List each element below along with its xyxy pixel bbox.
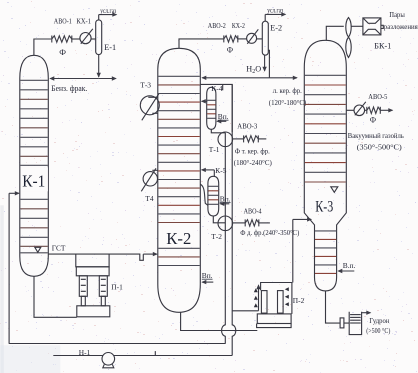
label K-2 [162,226,193,247]
furnace P-2 [257,283,292,328]
svg-text:ГСТ: ГСТ [52,243,66,252]
wire KX-1 to E-1 [91,38,96,40]
svg-text:Т-1: Т-1 [209,145,220,154]
K-4 bottoms to T-1 [211,129,225,133]
trunk wire from T-1/T-2 down to bottom long wire [222,133,226,344]
heat exchanger T-1 [218,132,233,147]
water draw from E-2 [264,55,266,71]
svg-text:Вакуумный газойль: Вакуумный газойль [348,131,405,140]
svg-text:разложения: разложения [384,22,418,31]
stripper K-4 [207,87,216,129]
svg-text:Ф: Ф [59,47,66,57]
wire K-3 top to ejector [326,26,344,40]
svg-text:Т-2: Т-2 [211,232,222,241]
P-2 feed wire and riser [232,286,258,311]
heat exchanger T-3 [140,96,159,115]
pump N-1 [102,353,115,366]
svg-text:Пары: Пары [389,10,405,19]
svg-text:(120°-180°С): (120°-180°С) [269,98,307,107]
heat exchanger T-4 [143,172,157,186]
trays of K-2 [158,76,200,265]
svg-text:Ф: Ф [227,45,233,54]
svg-text:К-2: К-2 [166,229,191,248]
wire ABO-2 to KX-2 [238,38,247,40]
air cooler ABO-4 [233,222,246,224]
level mark in K-1 bottom [35,247,41,252]
wire ejector to BK-1 [351,25,363,27]
svg-text:Ф т. кер. фр.: Ф т. кер. фр. [235,146,270,155]
P-2 flow arrows [254,287,289,307]
draw wire K-2 to stripper loop [200,84,232,132]
kerosene overhead product wire [268,50,269,78]
wire K-1 top to ABO-1 [34,39,51,55]
svg-text:БК-1: БК-1 [374,41,391,50]
svg-text:Е-2: Е-2 [270,23,282,32]
svg-text:АВО-3: АВО-3 [237,121,257,130]
column K-1 [20,55,49,276]
svg-text:Вп.: Вп. [202,271,213,280]
gas line from E-2 [264,14,266,21]
P-1 tube marks [81,279,106,291]
svg-text:усл.газ: усл.газ [100,8,116,15]
trunk wire crude from pump up to K-2 [232,84,236,355]
reflux drum E-2 [262,21,268,55]
steam ejector unit [346,18,351,38]
benzine product line [50,78,98,80]
long bottom wire [9,343,225,345]
svg-text:усл.газ: усл.газ [267,7,283,14]
submerged coil cooler (tar) [349,312,361,335]
svg-text:П-1: П-1 [111,282,123,291]
column K-2 [158,48,201,312]
condenser on gasoil draw [354,105,365,116]
vapour return K-5 to K-2 [202,169,215,171]
svg-text:(180°-240°С): (180°-240°С) [234,158,272,167]
wire K-3 to ABO-5 [346,109,354,111]
svg-text:КХ-1: КХ-1 [77,17,92,26]
P-2 outlet riser to K-3 [292,219,294,282]
trays of K-3 [305,75,346,273]
svg-text:Ф д. фр.(240°-350°С): Ф д. фр.(240°-350°С) [240,228,299,237]
svg-text:Вп.: Вп. [218,112,229,121]
wire E-1 bottom down [98,55,100,77]
svg-text:Е-1: Е-1 [104,43,116,52]
svg-text:АВО-5: АВО-5 [368,92,387,101]
crude feed wire with pump [53,355,232,357]
scan shading left edge [0,205,4,373]
inline fitting on tar wire [340,318,344,328]
vacuum column K-3 [304,40,346,291]
reflux return wire to K-2 [202,77,269,79]
stripper K-5 [208,176,219,216]
barometric condenser BK-1 [363,18,383,35]
svg-text:АВО-2: АВО-2 [208,21,226,30]
K-2 bottoms wire to P-2 [181,312,258,330]
svg-text:Бенз. фрак.: Бенз. фрак. [51,84,87,93]
svg-text:Гудрон: Гудрон [369,316,389,325]
svg-text:В.п.: В.п. [343,261,356,270]
feed wire into K-1 [9,192,19,194]
svg-text:(>500 °С): (>500 °С) [366,326,390,335]
svg-text:Т4: Т4 [145,194,154,203]
svg-text:Т-3: Т-3 [140,80,151,89]
svg-text:К-4: К-4 [211,84,222,93]
trays of K-1 [20,80,48,253]
level mark in K-3 [331,187,338,193]
svg-text:КХ-2: КХ-2 [232,21,245,30]
wire KX-2 to E-2 [257,38,263,40]
wire K-2 top to ABO-2 [179,39,224,48]
svg-text:П-2: П-2 [293,296,305,305]
svg-text:АВО-4: АВО-4 [244,206,262,215]
condenser KX-1 [80,33,91,44]
svg-text:(350°-500°С): (350°-500°С) [357,142,403,151]
liquid draw K-2 to K-5 [200,184,208,205]
label K-1 [21,167,48,191]
svg-text:К-1: К-1 [22,171,45,190]
reflux drum E-1 [96,20,102,55]
gas line from E-1 (усл.газ) [98,15,100,20]
svg-text:АВО-1: АВО-1 [54,17,72,26]
svg-text:Н-1: Н-1 [79,348,91,357]
air cooler ABO-5 [365,109,367,111]
wire ABO-1 to KX-1 [72,38,80,40]
K-5 bottoms to T-2 [213,216,225,223]
furnace P-1 [76,254,110,317]
air cooler ABO-1 [52,36,72,42]
air cooler ABO-2 [224,36,238,42]
K-3 bottoms wire [326,291,350,323]
heat exchanger T-2 [218,216,233,231]
vapour return K-4 to K-2 [202,100,208,102]
air cooler ABO-3 [233,138,244,140]
K-1 bottom outlet wire to furnace P-1 [34,276,77,317]
svg-text:л. кер. фр.: л. кер. фр. [273,86,302,95]
svg-text:К-3: К-3 [315,198,333,215]
condenser KX-2 [247,33,257,43]
svg-text:Ф: Ф [370,115,376,124]
